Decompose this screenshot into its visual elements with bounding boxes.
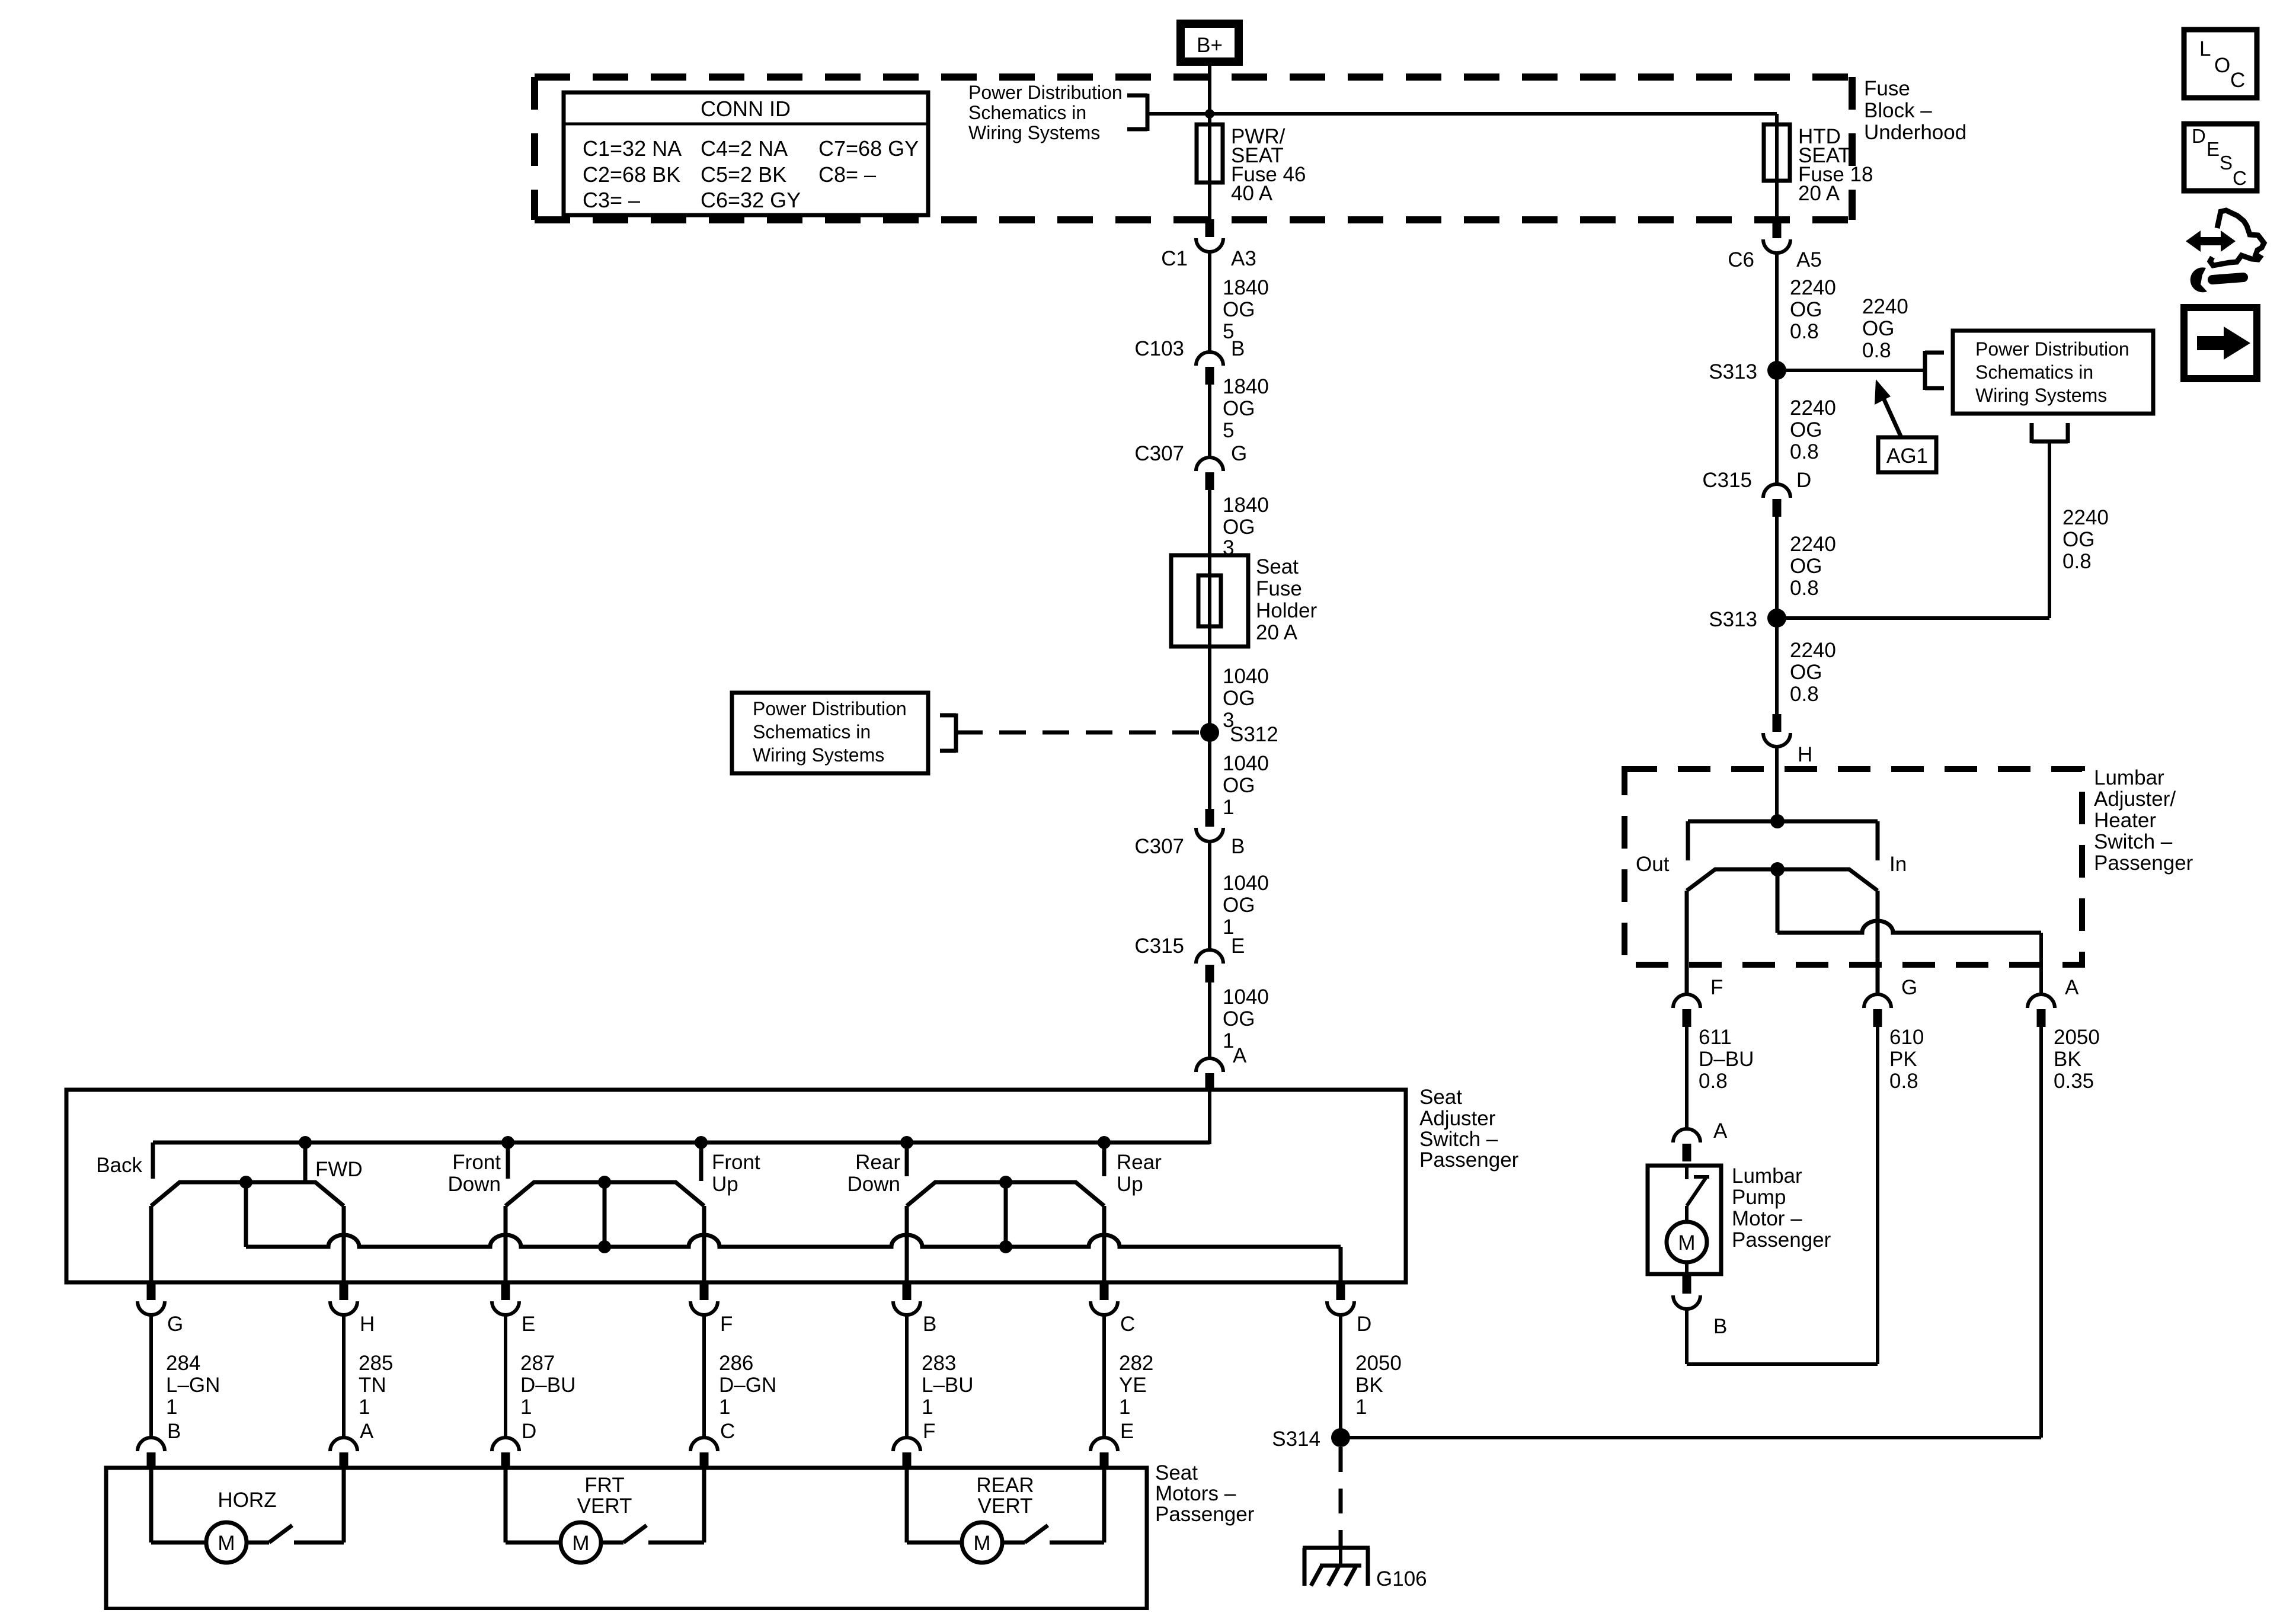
connector C1 pin A3 <box>1161 219 1256 270</box>
svg-text:0.8: 0.8 <box>1699 1070 1728 1093</box>
connector pin G of lumbar switch <box>1864 976 1917 1027</box>
svg-text:Seat: Seat <box>1256 555 1299 578</box>
svg-text:H: H <box>360 1313 375 1336</box>
wire label 1040 OG 1 <box>1223 985 1269 1052</box>
svg-text:Schematics in: Schematics in <box>968 102 1086 123</box>
svg-text:Switch –: Switch – <box>1419 1128 1498 1151</box>
wire label 2240 OG 0.8 <box>1790 639 1836 706</box>
switch rocker Back/FWD <box>151 1182 344 1206</box>
contact tick Rear Down <box>905 1142 909 1176</box>
svg-text:D–BU: D–BU <box>520 1374 575 1397</box>
svg-text:Passenger: Passenger <box>2094 852 2193 875</box>
svg-text:2050: 2050 <box>2054 1026 2100 1049</box>
wire pin D down to S314 <box>1339 1315 1342 1438</box>
wire rocker1 right leg to pin H <box>342 1206 346 1282</box>
svg-text:Underhood: Underhood <box>1864 121 1966 144</box>
svg-text:A: A <box>2065 976 2079 999</box>
icon LOC <box>2184 30 2257 98</box>
wire S313 second branch to right note <box>1777 441 2049 618</box>
svg-text:Seat: Seat <box>1419 1086 1462 1109</box>
svg-text:C4=2 NA: C4=2 NA <box>701 136 788 161</box>
svg-text:D: D <box>1796 469 1811 492</box>
svg-text:Up: Up <box>1117 1173 1143 1196</box>
svg-text:C315: C315 <box>1134 934 1184 958</box>
svg-text:C1: C1 <box>1161 247 1188 270</box>
svg-text:M: M <box>218 1532 235 1555</box>
label Rear Up <box>1117 1151 1162 1196</box>
svg-text:L–GN: L–GN <box>166 1374 220 1397</box>
svg-text:OG: OG <box>1223 774 1255 797</box>
svg-text:Power Distribution: Power Distribution <box>1975 338 2129 360</box>
label Lumbar Pump Motor - Passenger <box>1732 1164 1831 1252</box>
motor HORZ <box>149 1468 154 1542</box>
icon arrow box <box>2184 308 2257 379</box>
svg-text:B: B <box>1231 337 1245 360</box>
wire C103 to C307 <box>1208 385 1211 457</box>
svg-text:C5=2 BK: C5=2 BK <box>701 162 786 187</box>
wire label 284 L–GN 1 <box>166 1352 220 1419</box>
svg-text:BK: BK <box>1355 1374 1383 1397</box>
lumbar motor M <box>1667 1222 1707 1274</box>
wire rocker left leg to pin F <box>1685 891 1689 994</box>
node feed junction <box>1205 109 1214 119</box>
svg-text:1840: 1840 <box>1223 375 1269 398</box>
connector pin A into seat adjuster switch <box>1196 1044 1247 1091</box>
switch common bus (lower internal) with hops <box>246 1235 1341 1247</box>
svg-text:20 A: 20 A <box>1256 621 1298 644</box>
svg-text:C: C <box>2233 167 2247 189</box>
note: Power Distribution Schematics in Wiring Systems (right) <box>1953 331 2153 414</box>
svg-text:1040: 1040 <box>1223 665 1269 688</box>
svg-text:Adjuster/: Adjuster/ <box>2094 788 2176 811</box>
label Seat Adjuster Switch - Passenger <box>1419 1086 1519 1172</box>
switch feed bus (top internal) <box>153 1141 1210 1145</box>
svg-text:C: C <box>720 1420 735 1443</box>
svg-text:VERT: VERT <box>577 1494 632 1518</box>
wire S312 to C307 B <box>1208 732 1211 814</box>
svg-text:OG: OG <box>2062 528 2094 551</box>
svg-text:O: O <box>2214 54 2230 77</box>
svg-text:B: B <box>1713 1315 1727 1338</box>
connector pin C of seat adjuster switch <box>1091 1282 1135 1336</box>
svg-text:L–BU: L–BU <box>922 1374 974 1397</box>
wire label 286 D–GN 1 <box>719 1352 776 1419</box>
svg-text:Motor –: Motor – <box>1732 1207 1802 1230</box>
contact tick Front Up <box>699 1142 703 1181</box>
svg-text:HORZ: HORZ <box>218 1489 276 1512</box>
svg-text:20 A: 20 A <box>1798 182 1840 205</box>
svg-text:G: G <box>167 1313 183 1336</box>
svg-text:C: C <box>1120 1313 1135 1336</box>
wire label 2240 OG 0.8 <box>1790 533 1836 600</box>
svg-text:M: M <box>973 1532 990 1555</box>
wire label 2050 BK 1 <box>1355 1352 1402 1419</box>
wire label 2240 OG 0.8 (right branch) <box>2062 506 2109 573</box>
connector pin A of lumbar switch <box>2028 976 2079 1027</box>
svg-text:Block –: Block – <box>1864 99 1932 122</box>
wire pin H into lumbar box <box>1775 747 1779 821</box>
motor FRT VERT <box>504 1468 508 1542</box>
wire S314 to lumbar return <box>1341 1436 2041 1439</box>
wire label 287 D–BU 1 <box>520 1352 575 1419</box>
svg-text:Passenger: Passenger <box>1732 1228 1831 1252</box>
label Front Down <box>448 1151 501 1196</box>
svg-text:OG: OG <box>1790 661 1822 684</box>
svg-text:AG1: AG1 <box>1886 444 1928 468</box>
svg-text:G: G <box>1901 976 1917 999</box>
wire C1 to C103 <box>1208 252 1211 353</box>
connector pin A of lumbar pump motor <box>1673 1119 1728 1161</box>
svg-text:B+: B+ <box>1197 34 1223 57</box>
svg-text:S313: S313 <box>1709 608 1757 631</box>
wire rocker3 right leg to pin C <box>1102 1206 1107 1282</box>
svg-text:PK: PK <box>1889 1048 1917 1071</box>
connector pin E of seat motors <box>1091 1420 1134 1468</box>
svg-text:Front: Front <box>712 1151 760 1174</box>
svg-text:In: In <box>1889 853 1907 876</box>
svg-text:B: B <box>167 1420 181 1443</box>
lumbar adjuster/heater switch - passenger dashed box <box>1625 769 2082 965</box>
fuse HTD SEAT Fuse 18 20 A <box>1764 124 1873 205</box>
svg-text:Front: Front <box>452 1151 501 1174</box>
svg-text:Adjuster: Adjuster <box>1419 1107 1496 1130</box>
svg-text:CONN ID: CONN ID <box>701 97 791 121</box>
fuse PWR/SEAT Fuse 46 40 A <box>1197 124 1306 205</box>
wire label 1840 OG 3 <box>1223 494 1269 559</box>
svg-text:610: 610 <box>1889 1026 1924 1049</box>
connector pin E of seat adjuster switch <box>492 1282 535 1336</box>
svg-text:M: M <box>572 1532 589 1555</box>
wire switch pin down to seat motor pin <box>149 1315 153 1438</box>
svg-text:1: 1 <box>922 1396 933 1419</box>
svg-text:Lumbar: Lumbar <box>2094 766 2164 789</box>
connector pin F of lumbar switch <box>1673 976 1723 1027</box>
dashed wire S314 to ground <box>1339 1447 1343 1547</box>
svg-text:2240: 2240 <box>1862 295 1908 318</box>
connector pin H of seat adjuster switch <box>330 1282 375 1336</box>
svg-text:Up: Up <box>712 1173 738 1196</box>
dashed wire note to S312 <box>956 731 1200 735</box>
svg-text:Down: Down <box>448 1173 501 1196</box>
wire rocker2 right leg to pin F <box>702 1206 706 1282</box>
wire rocker right leg to pin G <box>1876 891 1880 994</box>
node S313 (first) <box>1709 360 1786 383</box>
connector pin D of seat motors <box>492 1420 536 1468</box>
bracket for mid note <box>940 713 956 753</box>
wire S313 to C315 <box>1775 370 1779 484</box>
label Front Up <box>712 1151 760 1196</box>
wire S313 branch to note bracket <box>1777 369 1925 372</box>
svg-text:40 A: 40 A <box>1231 182 1273 205</box>
svg-text:0.8: 0.8 <box>1790 577 1819 600</box>
svg-text:S312: S312 <box>1230 723 1278 746</box>
svg-text:OG: OG <box>1223 687 1255 710</box>
connector C315 pin D <box>1702 469 1811 517</box>
node S314 <box>1272 1428 1350 1451</box>
svg-text:1840: 1840 <box>1223 494 1269 517</box>
ground G106 <box>1303 1547 1427 1590</box>
svg-text:E: E <box>1120 1420 1134 1443</box>
svg-text:F: F <box>923 1420 935 1443</box>
svg-text:B: B <box>1231 835 1245 858</box>
svg-text:OG: OG <box>1223 397 1255 420</box>
seat adjuster switch - passenger box <box>66 1090 1406 1282</box>
svg-text:1040: 1040 <box>1223 872 1269 895</box>
wire label 2050 BK 0.35 <box>2054 1026 2100 1093</box>
connector pin C of seat motors <box>690 1420 735 1468</box>
wire C315 to S313 (second) <box>1775 517 1779 618</box>
wire label 2240 OG 0.8 <box>1790 396 1836 463</box>
svg-text:Holder: Holder <box>1256 599 1317 622</box>
svg-text:Back: Back <box>96 1154 142 1177</box>
svg-text:1040: 1040 <box>1223 752 1269 775</box>
svg-text:2240: 2240 <box>1790 396 1836 420</box>
connector C6 pin A5 <box>1728 220 1822 271</box>
svg-text:F: F <box>720 1313 733 1336</box>
svg-text:S314: S314 <box>1272 1428 1320 1451</box>
wire pin A into box <box>1208 1091 1211 1144</box>
contact tick FWD <box>303 1142 308 1181</box>
svg-text:0.35: 0.35 <box>2054 1070 2094 1093</box>
note: Power Distribution Schematics in Wiring Systems (mid) <box>732 693 928 773</box>
lumbar rocker center tap to pin A with hop <box>1777 921 2041 994</box>
svg-text:Wiring Systems: Wiring Systems <box>968 122 1100 143</box>
connector pin D of seat adjuster switch <box>1327 1282 1371 1336</box>
icon vehicle service (arrow, car outline, wrench) <box>2186 210 2264 292</box>
svg-text:Fuse: Fuse <box>1864 77 1910 100</box>
svg-text:282: 282 <box>1119 1352 1153 1375</box>
wire rocker2 left leg to pin E <box>504 1206 508 1282</box>
wire fuse holder to S312 <box>1208 647 1211 732</box>
svg-text:1: 1 <box>1355 1396 1367 1419</box>
wire label 1040 OG 1 <box>1223 752 1269 819</box>
connector pin B of seat motors <box>137 1420 181 1468</box>
svg-text:C1=32 NA: C1=32 NA <box>583 136 682 161</box>
node bus tap rocker 3 <box>999 1240 1012 1253</box>
label Seat Motors - Passenger <box>1155 1461 1255 1526</box>
connector pin B of seat adjuster switch <box>893 1282 936 1336</box>
svg-text:1: 1 <box>1119 1396 1130 1419</box>
connector ID table CONN ID <box>564 92 928 215</box>
svg-text:2050: 2050 <box>1355 1352 1402 1375</box>
svg-text:A: A <box>1713 1119 1728 1142</box>
svg-text:FRT: FRT <box>584 1474 624 1497</box>
wire label 1840 OG 5 <box>1223 375 1269 442</box>
svg-text:REAR: REAR <box>976 1474 1034 1497</box>
svg-text:OG: OG <box>1223 298 1255 321</box>
svg-text:Pump: Pump <box>1732 1186 1786 1209</box>
svg-text:C103: C103 <box>1134 337 1184 360</box>
wire switch pin down to seat motor pin <box>504 1315 507 1438</box>
svg-text:1: 1 <box>359 1396 370 1419</box>
wire label 282 YE 1 <box>1119 1352 1153 1419</box>
wire C307 to C315 <box>1208 841 1211 950</box>
svg-text:Schematics in: Schematics in <box>753 721 871 743</box>
svg-text:285: 285 <box>359 1352 393 1375</box>
svg-text:D: D <box>1357 1313 1371 1336</box>
lumbar pump motor - passenger box <box>1648 1166 1721 1274</box>
svg-text:286: 286 <box>719 1352 753 1375</box>
svg-text:Down: Down <box>848 1173 900 1196</box>
svg-text:1040: 1040 <box>1223 985 1269 1009</box>
svg-text:Out: Out <box>1636 853 1670 876</box>
svg-text:C315: C315 <box>1702 469 1752 492</box>
svg-text:G: G <box>1231 442 1247 465</box>
svg-text:B: B <box>923 1313 936 1336</box>
contact tick Front Down <box>506 1142 510 1179</box>
svg-text:2240: 2240 <box>2062 506 2109 529</box>
wire rocker3 left leg to pin B <box>905 1206 909 1282</box>
wire label 2240 OG 0.8 <box>1790 276 1836 343</box>
svg-text:OG: OG <box>1223 1007 1255 1030</box>
bracket under right note <box>2032 423 2068 443</box>
callout AG1 <box>1875 379 1936 472</box>
svg-text:OG: OG <box>1862 317 1894 340</box>
svg-text:YE: YE <box>1119 1374 1147 1397</box>
svg-text:Wiring Systems: Wiring Systems <box>1975 385 2107 406</box>
svg-text:D: D <box>522 1420 536 1443</box>
wire feed bus from note to HTD fuse <box>1148 112 1777 116</box>
svg-text:C2=68 BK: C2=68 BK <box>583 162 680 187</box>
svg-text:D–BU: D–BU <box>1699 1048 1754 1071</box>
svg-text:OG: OG <box>1790 555 1822 578</box>
wire bus down to pin D <box>1339 1247 1343 1282</box>
svg-text:M: M <box>1678 1231 1695 1254</box>
svg-text:L: L <box>2199 37 2211 60</box>
lumbar rocker switch <box>1687 862 1878 933</box>
svg-text:611: 611 <box>1699 1026 1732 1049</box>
svg-text:D–GN: D–GN <box>719 1374 776 1397</box>
svg-text:1: 1 <box>719 1396 730 1419</box>
svg-text:G106: G106 <box>1376 1567 1427 1590</box>
wire switch pin down to seat motor pin <box>342 1315 346 1438</box>
svg-text:OG: OG <box>1223 894 1255 917</box>
svg-text:A: A <box>360 1420 374 1443</box>
contact tick Back <box>151 1142 155 1179</box>
svg-text:Switch –: Switch – <box>2094 830 2173 853</box>
wire pin B return to 610 PK <box>1687 1027 1878 1364</box>
switch rocker Rear Down/Rear Up <box>907 1182 1104 1206</box>
seat motors - passenger box <box>106 1468 1147 1609</box>
svg-text:283: 283 <box>922 1352 956 1375</box>
wire B+ down to C1 <box>1208 66 1211 220</box>
svg-text:2240: 2240 <box>1790 639 1836 662</box>
svg-text:E: E <box>1231 934 1245 958</box>
svg-text:Seat: Seat <box>1155 1461 1198 1484</box>
node lumbar feed junction <box>1770 814 1785 828</box>
wire switch pin down to seat motor pin <box>702 1315 706 1438</box>
node S313 (second) <box>1709 608 1786 631</box>
svg-text:A: A <box>1233 1044 1247 1067</box>
svg-text:C307: C307 <box>1134 442 1184 465</box>
svg-text:D: D <box>2192 125 2206 147</box>
svg-text:FWD: FWD <box>315 1158 363 1181</box>
wire switch pin down to seat motor pin <box>905 1315 909 1438</box>
svg-text:H: H <box>1798 743 1812 766</box>
svg-text:284: 284 <box>166 1352 200 1375</box>
wire lumbar pin A (2050 BK) down to S314 bus <box>2039 1027 2043 1438</box>
svg-text:1: 1 <box>166 1396 177 1419</box>
svg-text:Rear: Rear <box>855 1151 900 1174</box>
svg-text:Heater: Heater <box>2094 809 2156 832</box>
svg-text:Passenger: Passenger <box>1155 1503 1255 1526</box>
svg-text:Motors –: Motors – <box>1155 1482 1236 1505</box>
svg-text:1: 1 <box>520 1396 532 1419</box>
switch rocker Front Down/Front Up <box>506 1182 704 1206</box>
svg-text:OG: OG <box>1223 516 1255 539</box>
svg-text:0.8: 0.8 <box>1790 683 1819 706</box>
connector pin H into lumbar switch <box>1763 714 1812 766</box>
icon DESC <box>2184 124 2257 191</box>
seat fuse holder 20 A <box>1171 555 1317 647</box>
svg-text:Power Distribution: Power Distribution <box>753 698 907 719</box>
svg-text:C8= –: C8= – <box>818 162 876 187</box>
svg-text:0.8: 0.8 <box>1790 440 1819 463</box>
node bus tap rocker 2 <box>598 1240 611 1253</box>
svg-text:F: F <box>1710 976 1723 999</box>
svg-text:0.8: 0.8 <box>1790 320 1819 343</box>
wire C315 to switch pin A <box>1208 982 1211 1058</box>
svg-text:E: E <box>2207 138 2220 160</box>
connector pin F of seat motors <box>893 1420 935 1468</box>
label Fuse Block - Underhood <box>1864 77 1966 144</box>
svg-text:1840: 1840 <box>1223 276 1269 299</box>
bracket for top note <box>1127 94 1147 131</box>
svg-text:2240: 2240 <box>1790 533 1836 556</box>
connector C307 pin B <box>1134 809 1245 858</box>
svg-text:OG: OG <box>1790 418 1822 441</box>
svg-text:5: 5 <box>1223 419 1234 442</box>
connector C103 pin B <box>1134 337 1245 385</box>
svg-text:C: C <box>2230 69 2245 92</box>
svg-text:0.8: 0.8 <box>2062 550 2092 573</box>
svg-text:C7=68 GY: C7=68 GY <box>818 136 919 161</box>
label Lumbar Adjuster/Heater Switch - Passenger <box>2094 766 2193 875</box>
wire label 611 D-BU 0.8 <box>1699 1026 1754 1093</box>
svg-text:A3: A3 <box>1231 247 1256 270</box>
svg-text:0.8: 0.8 <box>1862 339 1891 362</box>
note: Power Distribution Schematics in Wiring Systems (top) <box>968 82 1123 143</box>
connector pin A of seat motors <box>330 1420 374 1468</box>
lumbar contact bar <box>1688 821 1878 860</box>
svg-text:C307: C307 <box>1134 835 1184 858</box>
svg-text:Lumbar: Lumbar <box>1732 1164 1802 1188</box>
svg-text:287: 287 <box>520 1352 555 1375</box>
svg-text:Passenger: Passenger <box>1419 1148 1519 1172</box>
svg-text:0.8: 0.8 <box>1889 1070 1918 1093</box>
wire label 2240 OG 0.8 (branch) <box>1862 295 1908 362</box>
svg-text:E: E <box>522 1313 535 1336</box>
wire label 610 PK 0.8 <box>1889 1026 1924 1093</box>
wire label 1040 OG 3 <box>1223 665 1269 732</box>
svg-text:C6: C6 <box>1728 248 1754 271</box>
svg-text:VERT: VERT <box>978 1494 1033 1518</box>
svg-text:OG: OG <box>1790 298 1822 321</box>
svg-text:C3= –: C3= – <box>583 188 640 212</box>
svg-text:Power Distribution: Power Distribution <box>968 82 1123 103</box>
svg-text:S313: S313 <box>1709 360 1757 383</box>
power symbol B+ <box>1181 24 1239 62</box>
contact tick Rear Up <box>1102 1142 1107 1176</box>
wire switch pin down to seat motor pin <box>1102 1315 1106 1438</box>
svg-text:Fuse: Fuse <box>1256 577 1302 600</box>
lumbar motor internal switch <box>1687 1166 1709 1222</box>
wire rocker1 left leg to pin G <box>149 1206 154 1282</box>
wire label 1840 OG 5 <box>1223 276 1269 343</box>
svg-text:TN: TN <box>359 1374 386 1397</box>
connector C307 pin G <box>1134 442 1247 490</box>
svg-text:BK: BK <box>2054 1048 2081 1071</box>
